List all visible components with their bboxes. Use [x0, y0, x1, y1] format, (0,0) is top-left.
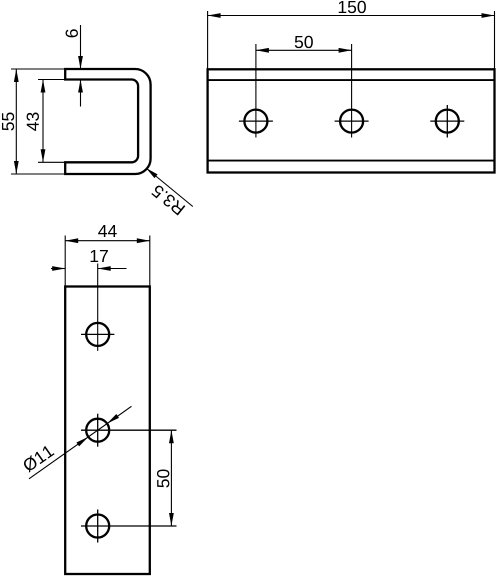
dimension 55 arrow down	[14, 161, 19, 174]
dimension 150 extension line left	[207, 11, 209, 69]
front view hole 2 horizontal centerline	[335, 120, 369, 122]
radius R3.5 leader line	[146, 168, 193, 207]
bottom view hole 3	[86, 515, 109, 538]
front view top flange inner edge	[208, 79, 495, 81]
dimension 150 arrow right	[482, 13, 495, 18]
front view hole 2 vertical centerline / extension	[351, 44, 353, 138]
diameter Ø11 arrow upper	[107, 414, 119, 424]
dimension 44 arrow right	[137, 238, 150, 243]
dimension 50 text (bottom view)	[157, 469, 169, 487]
dimension 43 arrow down	[41, 149, 46, 162]
bottom view hole 2 vertical centerline	[97, 414, 99, 447]
dimension 50 arrow up	[169, 430, 174, 443]
dimension 44 extension line left	[64, 236, 66, 287]
dimension 43 extension line top	[38, 79, 65, 81]
bottom view hole 3 vertical centerline	[97, 510, 99, 543]
diameter Ø11 leader line	[29, 406, 132, 479]
front view hole 2	[340, 110, 363, 133]
front view hole 1 vertical centerline / extension	[255, 44, 257, 138]
dimension 44 line	[65, 240, 150, 242]
diameter Ø11 text	[21, 444, 54, 473]
dimension 50 arrow right	[339, 48, 352, 53]
front view hole 1 horizontal centerline	[239, 120, 273, 122]
front view outline	[208, 69, 495, 172]
radius R3.5 arrow	[146, 168, 158, 178]
dimension 43 arrow up	[41, 80, 46, 93]
dimension 17 text	[91, 250, 108, 262]
front view hole 3	[436, 110, 459, 133]
dimension 6 upper line	[80, 25, 82, 69]
dimension 150 line	[208, 15, 495, 17]
bottom view hole 1 horizontal centerline	[81, 333, 114, 335]
dimension 44 text	[98, 225, 117, 237]
dimension 50 arrow left	[256, 48, 269, 53]
dimension 50 arrow down	[169, 513, 174, 526]
dimension 55 extension line bottom	[11, 173, 65, 175]
dimension 150 text	[339, 1, 366, 13]
bottom view hole 2 horizontal centerline extended to 50 dim	[81, 429, 177, 431]
bottom view hole 2	[86, 419, 109, 442]
dimension 17 line right tail	[98, 268, 127, 270]
bottom view hole 3 horizontal centerline extended to 50 dim	[81, 525, 177, 527]
dimension 50 line (bottom view)	[170, 430, 172, 526]
dimension 55 extension line top	[11, 68, 65, 70]
dimension 6 lower line	[80, 80, 82, 107]
dimension 55 arrow up	[14, 69, 19, 82]
front view hole 3 vertical centerline	[446, 105, 448, 138]
dimension 44 extension line right	[149, 236, 151, 287]
dimension 17 arrow pointing left	[98, 266, 111, 271]
dimension 50 text (front view)	[295, 36, 313, 48]
dimension 43 text	[27, 113, 39, 131]
radius R3.5 text	[151, 184, 186, 216]
dimension 150 extension line right	[494, 11, 496, 69]
dimension 43 extension line bottom	[38, 161, 65, 163]
front view bottom flange inner edge	[208, 160, 495, 162]
dimension 150 arrow left	[208, 13, 221, 18]
bottom view plate outline	[65, 287, 150, 575]
dimension 55 line	[15, 69, 17, 174]
dimension 44 arrow left	[65, 238, 78, 243]
dimension 6 text	[66, 29, 78, 37]
diameter Ø11 arrow lower	[76, 437, 88, 447]
bottom view hole 1 vertical centerline / extension	[97, 264, 99, 351]
channel cross-section outline	[65, 69, 150, 174]
dimension 17 arrow pointing right	[52, 266, 65, 271]
dimension 55 text	[2, 113, 14, 131]
dimension 43 line	[42, 80, 44, 163]
front view hole 1	[244, 110, 267, 133]
dimension 6 arrow up	[78, 80, 83, 93]
bottom view hole 1	[86, 323, 109, 346]
dimension 50 line (front view)	[256, 49, 352, 51]
dimension 17 line left tail	[51, 268, 65, 270]
front view hole 3 horizontal centerline	[430, 120, 464, 122]
dimension 6 arrow down	[78, 56, 83, 69]
